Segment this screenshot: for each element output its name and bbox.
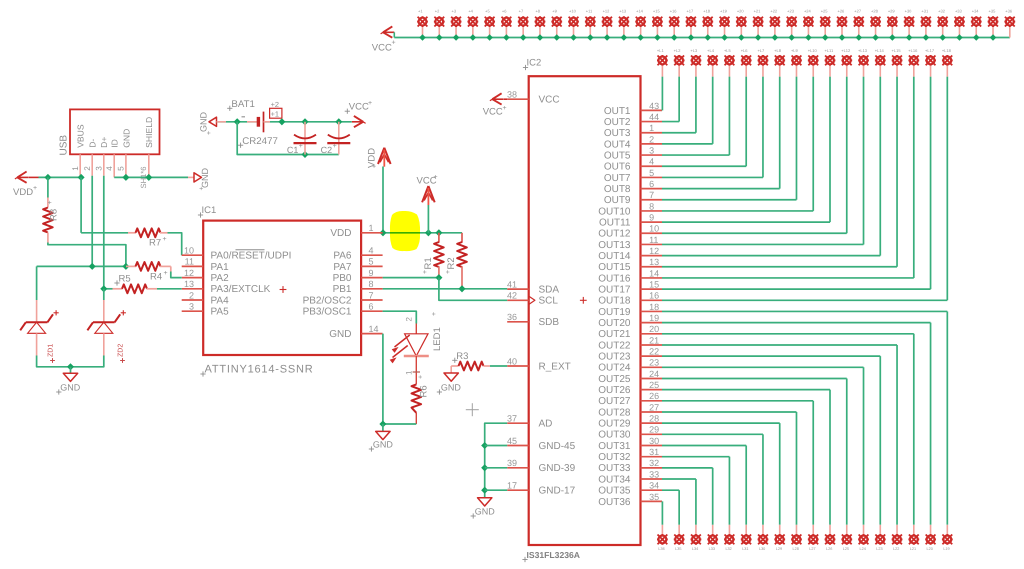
svg-text:L32: L32 — [725, 547, 731, 551]
svg-text:L33: L33 — [709, 547, 715, 551]
svg-text:6: 6 — [369, 302, 374, 312]
IC2 pin 7 OUT9 — [604, 190, 662, 206]
svg-text:GND: GND — [475, 507, 496, 517]
svg-text:30: 30 — [649, 436, 659, 446]
battery BAT1 CR2477 — [227, 99, 282, 148]
svg-text:OUT12: OUT12 — [598, 229, 631, 240]
IC2 pin 36 SDB — [507, 312, 559, 328]
IC1 pin 2 PA4 — [182, 290, 229, 306]
svg-text:OUT21: OUT21 — [598, 329, 631, 340]
LED35 (top row) — [988, 9, 999, 41]
wire OUT12 to LED column — [662, 77, 847, 234]
wire OUT25 to bottom LED column — [662, 378, 847, 524]
svg-text:10: 10 — [649, 224, 659, 234]
wire OUT23 to bottom LED column — [662, 356, 880, 525]
svg-text:GND: GND — [199, 112, 209, 133]
wire OUT22 to bottom LED column — [662, 345, 897, 525]
svg-text:L35: L35 — [675, 547, 681, 551]
IC2 pin 10 OUT12 — [598, 224, 662, 240]
LED46 (second row) — [808, 48, 819, 76]
USB pin 5 — [117, 154, 126, 177]
svg-text:+16: +16 — [670, 9, 678, 14]
svg-text:CR2477: CR2477 — [242, 136, 278, 147]
IC1 pin 12 PA2 — [182, 268, 229, 284]
svg-text:OUT17: OUT17 — [598, 285, 631, 296]
svg-text:7: 7 — [369, 290, 374, 300]
IC2 pin 21 OUT22 — [598, 335, 662, 351]
wire battery to VCC — [264, 118, 352, 125]
IC2 pin 22 OUT23 — [598, 347, 662, 363]
wire OUT34 to bottom LED column — [662, 479, 696, 525]
wire D- vertical — [91, 176, 93, 267]
svg-text:OUT19: OUT19 — [598, 307, 631, 318]
svg-text:+: + — [503, 105, 507, 112]
svg-text:L28: L28 — [792, 547, 798, 551]
svg-text:32: 32 — [649, 458, 659, 468]
svg-text:12: 12 — [649, 246, 659, 256]
IC2 pin 39 GND-39 — [507, 458, 576, 474]
IC2 pin 42 SCL — [507, 291, 558, 307]
wire PB0 to R1 to SCL — [383, 274, 508, 300]
wire OUT19 to bottom LED column — [662, 311, 947, 524]
IC2 pin 34 OUT35 — [598, 481, 662, 497]
LED45 (second row) — [791, 48, 802, 76]
svg-text:+: + — [333, 143, 337, 150]
svg-text:+14: +14 — [636, 9, 644, 14]
ground GND (right of USB) — [194, 168, 210, 191]
svg-text:L22: L22 — [893, 547, 899, 551]
wire OUT21 to bottom LED column — [662, 334, 914, 525]
svg-text:1: 1 — [649, 123, 654, 133]
IC2 pin 26 OUT27 — [598, 391, 662, 407]
svg-text:+: + — [47, 200, 54, 204]
IC1 pin 9 PB0 — [333, 268, 383, 284]
LED34 (top row) — [971, 9, 982, 41]
capacitor C1 — [287, 122, 317, 155]
svg-text:+29: +29 — [888, 9, 896, 14]
wire OUT27 to bottom LED column — [662, 401, 813, 525]
svg-text:8: 8 — [649, 201, 654, 211]
wire OUT31 to bottom LED column — [662, 446, 746, 525]
LED28 (top row) — [870, 9, 881, 41]
LED70 (bottom row) — [691, 525, 702, 551]
LED10 (top row) — [568, 9, 579, 41]
svg-text:OUT28: OUT28 — [598, 407, 631, 418]
wire OUT3 to LED column — [662, 77, 696, 133]
wire IC1 GND down — [379, 334, 416, 432]
wire OUT18 to LED column — [662, 77, 947, 301]
IC1 pin 7 PB2/OSC2 — [303, 290, 383, 306]
IC2 pin 2 OUT4 — [604, 134, 662, 150]
svg-text:OUT24: OUT24 — [598, 363, 631, 374]
svg-text:19: 19 — [649, 313, 659, 323]
IC1 pin 4 PA6 — [333, 246, 382, 262]
IC2 pin 3 OUT5 — [604, 145, 662, 161]
IC2 pin 11 OUT13 — [598, 235, 662, 251]
svg-text:36: 36 — [507, 312, 517, 322]
wire OUT17 to LED column — [662, 77, 931, 290]
svg-text:35: 35 — [649, 492, 659, 502]
svg-text:+L18: +L18 — [942, 48, 952, 53]
LED11 (top row) — [585, 9, 596, 41]
svg-text:+: + — [368, 100, 372, 107]
IC2 pin 35 OUT36 — [598, 492, 662, 508]
svg-text:+11: +11 — [586, 9, 593, 14]
svg-text:VCC: VCC — [372, 42, 392, 53]
svg-text:R8: R8 — [49, 209, 60, 221]
IC2 pin 25 OUT26 — [598, 380, 662, 396]
LED29 (top row) — [887, 9, 898, 41]
diode ZD2 — [87, 289, 126, 363]
LED52 (second row) — [908, 48, 919, 76]
svg-text:ZD1: ZD1 — [48, 344, 55, 357]
svg-text:+36: +36 — [1005, 9, 1013, 14]
USB pin 3 — [95, 154, 104, 176]
IC2 pin 15 OUT17 — [598, 280, 662, 296]
IC2 pin 30 OUT31 — [598, 436, 662, 452]
LED22 (top row) — [769, 9, 780, 41]
LED8 (top row) — [535, 9, 546, 41]
wire OUT2 to LED column — [662, 77, 679, 122]
svg-text:+23: +23 — [787, 9, 795, 14]
IC2 pin 41 SDA — [507, 279, 559, 295]
svg-text:R_EXT: R_EXT — [539, 361, 571, 372]
svg-text:OUT36: OUT36 — [598, 497, 631, 508]
svg-text:+32: +32 — [938, 9, 946, 14]
LED24 (top row) — [803, 9, 814, 41]
svg-text:ZD2: ZD2 — [118, 344, 125, 357]
svg-text:2: 2 — [649, 134, 654, 144]
LED42 (second row) — [741, 48, 752, 76]
wire OUT16 to LED column — [662, 77, 914, 278]
LED63 (bottom row) — [808, 525, 819, 551]
svg-text:+L3: +L3 — [690, 48, 698, 53]
wire OUT1 to LED column — [661, 77, 663, 111]
USB pin 2 — [83, 154, 92, 176]
wire OUT5 to LED column — [662, 77, 729, 155]
IC2 pin 14 OUT16 — [598, 268, 662, 284]
LED67 (bottom row) — [741, 525, 752, 551]
svg-text:OUT25: OUT25 — [598, 374, 631, 385]
svg-text:L25: L25 — [843, 547, 849, 551]
svg-text:4: 4 — [105, 166, 114, 171]
svg-text:OUT5: OUT5 — [604, 150, 631, 161]
wire D- net row — [37, 263, 130, 270]
svg-text:OUT29: OUT29 — [598, 419, 631, 430]
svg-text:SCL: SCL — [539, 296, 559, 307]
LED65 (bottom row) — [774, 525, 785, 551]
USB pin 1 — [71, 154, 80, 177]
svg-text:23: 23 — [649, 358, 659, 368]
svg-text:+: + — [372, 164, 376, 171]
wire R3 to R_EXT — [490, 365, 507, 367]
svg-text:ATTINY1614-SSNR: ATTINY1614-SSNR — [205, 364, 314, 376]
IC2 pin 1 OUT3 — [604, 123, 662, 139]
wire OUT7 to LED column — [662, 77, 763, 178]
wire OUT29 to bottom LED column — [662, 423, 780, 525]
wire OUT9 to LED column — [662, 77, 796, 200]
LED43 (second row) — [757, 48, 768, 76]
svg-text:+9: +9 — [552, 9, 557, 14]
IC2 pin 17 GND-17 — [507, 481, 576, 497]
LED36 (top row) — [1004, 9, 1015, 38]
wire PB1 to R2 to SDA — [383, 285, 508, 292]
svg-text:GND-39: GND-39 — [539, 463, 576, 474]
svg-text:OUT15: OUT15 — [598, 262, 631, 273]
svg-text:22: 22 — [649, 347, 659, 357]
wire USB ID/GND/SHIELD to GND — [114, 174, 194, 181]
svg-text:+35: +35 — [989, 9, 997, 14]
svg-text:AD: AD — [539, 419, 553, 430]
LED31 (top row) — [921, 9, 932, 41]
svg-text:+L8: +L8 — [774, 48, 782, 53]
power symbol VCC (top left) — [372, 26, 396, 53]
svg-text:L23: L23 — [876, 547, 882, 551]
svg-text:41: 41 — [507, 279, 517, 289]
connector X1 USB box — [59, 109, 160, 155]
LED60 (bottom row) — [858, 525, 869, 551]
LED23 (top row) — [786, 9, 797, 41]
IC IC2 IS31FL3236A box — [522, 58, 640, 563]
svg-text:OUT9: OUT9 — [604, 195, 631, 206]
resistor R4 — [126, 262, 171, 282]
resistor R6 — [412, 356, 430, 424]
svg-text:16: 16 — [649, 291, 659, 301]
LED3 (top row) — [451, 9, 462, 41]
LED6 (top row) — [501, 9, 512, 41]
LED47 (second row) — [825, 48, 836, 76]
svg-text:+: + — [164, 270, 168, 277]
svg-text:L31: L31 — [742, 547, 748, 551]
wire VCC rail (top) — [394, 37, 1010, 39]
svg-text:VDD: VDD — [330, 228, 351, 239]
diode ZD1 — [20, 266, 59, 363]
svg-text:+2: +2 — [435, 9, 440, 14]
LED20 (top row) — [736, 9, 747, 41]
LED16 (top row) — [669, 9, 680, 41]
IC2 pin 16 OUT18 — [598, 291, 662, 307]
svg-text:+19: +19 — [720, 9, 728, 14]
wire OUT26 to bottom LED column — [662, 390, 830, 525]
wire OUT14 to LED column — [662, 77, 880, 256]
svg-text:SHIELD: SHIELD — [144, 117, 154, 148]
LED7 (top row) — [518, 9, 529, 41]
LED61 (bottom row) — [841, 525, 852, 551]
svg-text:PB3/OSC1: PB3/OSC1 — [303, 307, 352, 318]
svg-text:OUT30: OUT30 — [598, 430, 631, 441]
svg-text:+22: +22 — [770, 9, 778, 14]
LED44 (second row) — [774, 48, 785, 76]
svg-text:13: 13 — [184, 279, 194, 289]
svg-text:ID: ID — [110, 139, 120, 148]
svg-text:OUT1: OUT1 — [604, 106, 631, 117]
ground GND (IC1) — [369, 431, 394, 451]
wire OUT36 to bottom LED column — [661, 501, 663, 524]
svg-text:D+: D+ — [99, 137, 109, 148]
svg-text:+10: +10 — [569, 9, 577, 14]
svg-text:IC1: IC1 — [202, 205, 217, 216]
svg-text:OUT26: OUT26 — [598, 385, 631, 396]
svg-text:45: 45 — [507, 436, 517, 446]
svg-text:OUT11: OUT11 — [599, 218, 631, 229]
svg-text:1: 1 — [369, 223, 374, 233]
IC2 pin 18 OUT19 — [598, 302, 662, 318]
svg-text:GND-45: GND-45 — [539, 441, 576, 452]
wire D+ to R5 — [100, 285, 112, 292]
svg-text:L26: L26 — [826, 547, 832, 551]
resistor R2 — [445, 233, 467, 289]
svg-text:+17: +17 — [686, 9, 694, 14]
svg-text:+33: +33 — [955, 9, 963, 14]
svg-text:39: 39 — [507, 458, 517, 468]
svg-text:OUT35: OUT35 — [598, 486, 631, 497]
IC2 pin 28 OUT29 — [598, 414, 662, 430]
svg-text:26: 26 — [649, 391, 659, 401]
svg-text:2: 2 — [189, 290, 194, 300]
svg-text:43: 43 — [649, 101, 659, 111]
IC1 pin 13 PA3/EXTCLK — [182, 279, 271, 295]
svg-text:R4: R4 — [150, 271, 162, 282]
wire OUT13 to LED column — [662, 77, 864, 245]
svg-text:R3: R3 — [456, 351, 468, 362]
LED71 (bottom row) — [674, 525, 685, 551]
LED27 (top row) — [853, 9, 864, 41]
svg-text:+L17: +L17 — [925, 48, 935, 53]
svg-text:3: 3 — [189, 302, 194, 312]
svg-text:IC2: IC2 — [527, 58, 542, 69]
svg-text:18: 18 — [649, 302, 659, 312]
svg-text:34: 34 — [649, 481, 659, 491]
svg-text:29: 29 — [649, 425, 659, 435]
resistor R3 — [451, 351, 490, 371]
svg-text:OUT4: OUT4 — [604, 139, 631, 150]
svg-text:25: 25 — [649, 380, 659, 390]
svg-text:9: 9 — [369, 268, 374, 278]
svg-text:GND: GND — [373, 440, 394, 450]
svg-text:USB: USB — [59, 135, 70, 156]
svg-text:20: 20 — [649, 324, 659, 334]
ground GND (diodes) — [56, 373, 81, 394]
svg-text:+1: +1 — [271, 110, 279, 119]
IC2 pin 20 OUT21 — [598, 324, 662, 340]
wire D+ vertical — [103, 176, 105, 289]
svg-text:11: 11 — [649, 235, 658, 245]
wire R3 to GND — [450, 366, 452, 373]
LED33 (top row) — [954, 9, 965, 41]
wire OUT6 to LED column — [662, 77, 746, 167]
svg-text:+L1: +L1 — [657, 48, 665, 53]
svg-text:+24: +24 — [804, 9, 812, 14]
wire R5 to IC1 pin 13 PA3 — [157, 288, 182, 290]
svg-text:37: 37 — [507, 414, 517, 424]
svg-text:OUT27: OUT27 — [598, 396, 631, 407]
svg-text:3: 3 — [649, 145, 654, 155]
svg-text:+: + — [299, 143, 303, 150]
svg-text:24: 24 — [649, 369, 659, 379]
svg-text:VCC: VCC — [483, 107, 503, 118]
svg-text:OUT8: OUT8 — [604, 184, 631, 195]
LED54 (second row) — [942, 48, 953, 76]
svg-text:L29: L29 — [776, 547, 782, 551]
LED59 (bottom row) — [875, 525, 886, 551]
svg-text:5: 5 — [369, 257, 374, 267]
LED37 (second row) — [657, 48, 668, 76]
svg-text:GND: GND — [60, 383, 81, 393]
svg-text:+12: +12 — [603, 9, 611, 14]
svg-text:R7: R7 — [149, 237, 161, 248]
ground GND (battery) — [199, 112, 217, 136]
svg-text:SDB: SDB — [539, 317, 560, 328]
svg-text:+26: +26 — [838, 9, 846, 14]
LED30 (top row) — [904, 9, 915, 41]
svg-text:+L13: +L13 — [858, 48, 868, 53]
svg-text:1: 1 — [405, 370, 414, 375]
IC2 pin 32 OUT33 — [598, 458, 662, 474]
IC1 pin 5 PA7 — [333, 257, 382, 273]
svg-text:+: + — [199, 186, 206, 190]
svg-text:+7: +7 — [519, 9, 524, 14]
svg-text:OUT31: OUT31 — [598, 441, 631, 452]
svg-text:PA4: PA4 — [211, 295, 230, 306]
svg-text:PA0/RESET/UDPI: PA0/RESET/UDPI — [211, 251, 292, 262]
LED2 (top row) — [434, 9, 445, 41]
IC2 pin 6 OUT8 — [604, 179, 662, 195]
svg-text:VCC: VCC — [349, 102, 369, 113]
svg-text:+8: +8 — [535, 9, 540, 14]
wire PB3/OSC1 to LED1 — [383, 311, 417, 323]
LED53 (second row) — [925, 48, 936, 76]
resistor R8 — [43, 177, 59, 242]
power symbol VDD (above IC1) — [367, 148, 391, 171]
LED64 (bottom row) — [791, 525, 802, 551]
svg-text:+4: +4 — [468, 9, 473, 14]
svg-text:+27: +27 — [854, 9, 862, 14]
svg-text:+L7: +L7 — [757, 48, 765, 53]
IC2 pin 38 VCC — [507, 90, 560, 106]
svg-text:OUT32: OUT32 — [598, 452, 631, 463]
svg-text:17: 17 — [507, 481, 517, 491]
IC2 pin 40 R_EXT — [507, 356, 571, 372]
svg-text:VCC: VCC — [539, 95, 560, 106]
USB pin SH1*6 SHIELD — [139, 154, 149, 188]
svg-text:L19: L19 — [943, 547, 949, 551]
capacitor C2 — [321, 122, 351, 155]
svg-text:PB1: PB1 — [333, 284, 352, 295]
IC2 pin 23 OUT24 — [598, 358, 662, 374]
IC1 pin 6 PB3/OSC1 — [303, 302, 383, 318]
svg-text:PB0: PB0 — [333, 273, 352, 284]
svg-text:OUT10: OUT10 — [598, 206, 631, 217]
IC1 pin 14 GND — [329, 324, 382, 340]
svg-text:L21: L21 — [910, 547, 916, 551]
IC2 pin 12 OUT14 — [598, 246, 662, 262]
svg-text:38: 38 — [507, 90, 517, 100]
wire R7 to IC1 pin 10 — [168, 233, 182, 255]
svg-text:PA2: PA2 — [211, 273, 230, 284]
LED40 (second row) — [707, 48, 718, 76]
svg-text:PA6: PA6 — [333, 251, 352, 262]
svg-text:44: 44 — [649, 112, 659, 122]
svg-text:10: 10 — [184, 246, 194, 256]
power symbol VCC (battery) — [345, 100, 372, 127]
svg-text:5: 5 — [649, 168, 654, 178]
LED26 (top row) — [837, 9, 848, 41]
wire OUT10 to LED column — [662, 77, 813, 211]
svg-text:+18: +18 — [703, 9, 711, 14]
svg-text:OUT14: OUT14 — [598, 251, 631, 262]
svg-text:SDA: SDA — [539, 285, 560, 296]
svg-text:+L15: +L15 — [892, 48, 902, 53]
